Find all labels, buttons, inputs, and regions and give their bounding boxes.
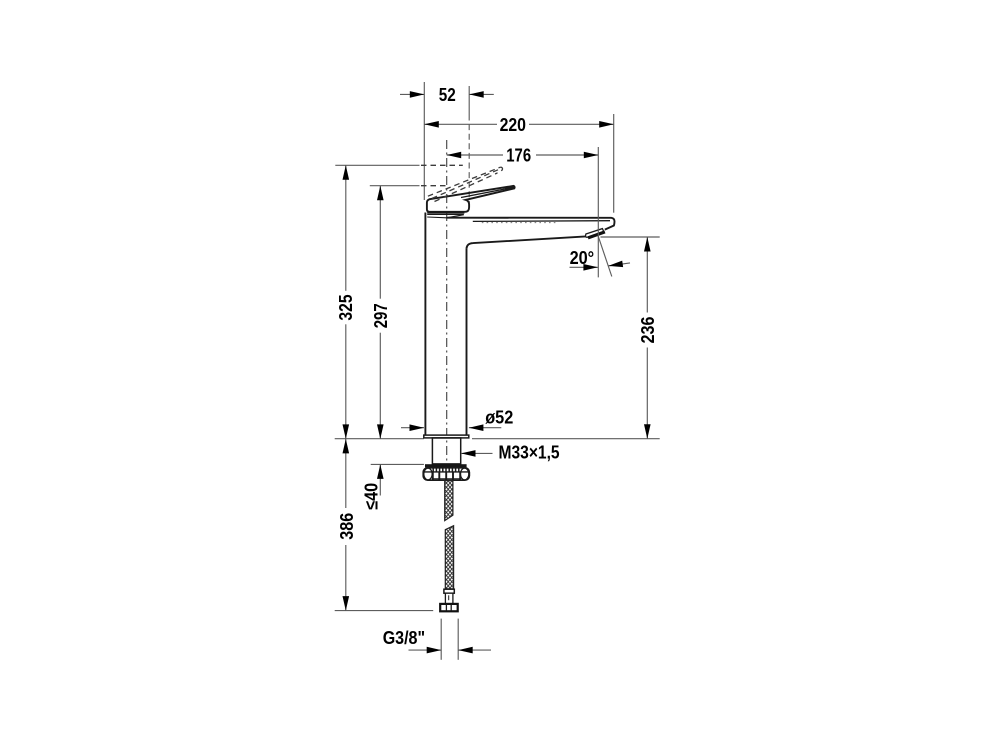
extension line spout tip (x=613.7) <box>613 114 615 213</box>
extension line right of base dashed continuation <box>468 115 470 210</box>
base flange <box>424 435 469 438</box>
water stream 20-degree slant line <box>597 234 612 277</box>
hidden dashes continuing y=185.7 <box>421 185 447 187</box>
mounting nut mid line <box>424 471 468 473</box>
extension line aerator axis (x=598.3) <box>597 147 599 277</box>
extension line top of raised handle (y=165.3) <box>335 164 419 166</box>
raised handle dashed tip arc <box>498 167 503 173</box>
dim o52 leaders <box>401 427 424 429</box>
svg-text:M33×1,5: M33×1,5 <box>499 443 560 463</box>
handle lever inner edge line <box>461 188 511 198</box>
svg-text:≤40: ≤40 <box>361 483 381 510</box>
body left edge <box>424 213 426 436</box>
svg-text:220: 220 <box>500 115 526 135</box>
spout second top line <box>473 220 610 223</box>
mounting nut face lines <box>433 472 460 479</box>
hose end tube tick <box>448 595 450 600</box>
dim le40 tail line <box>379 464 381 495</box>
washer dark band <box>425 464 467 467</box>
handle base thick line <box>427 212 464 214</box>
spout top dotted line <box>482 222 557 224</box>
faucet <box>423 167 614 611</box>
extension line top of handle (y=185.7) <box>370 185 420 187</box>
raised handle dashed line C <box>432 170 498 199</box>
mounting plane line left segment <box>335 438 424 440</box>
mounting nut right end ellipse <box>460 468 468 480</box>
construction lines <box>335 82 660 660</box>
dim 386 arrows <box>343 439 350 454</box>
dim 386 line <box>345 439 347 508</box>
raised handle dashed line B <box>435 173 498 202</box>
handle lever and grip outline <box>427 186 515 212</box>
dim M33 leader <box>461 452 493 454</box>
dim 176 arrows <box>447 152 462 159</box>
body right edge <box>466 248 468 435</box>
handle collar slant line <box>447 215 464 218</box>
dim 325 arrows <box>343 165 350 180</box>
hose end nut <box>440 604 458 611</box>
center line of faucet axis (x=446.7) <box>446 140 448 464</box>
hose bottom extension line (y=610.6) <box>335 610 434 612</box>
hose lower segment with braid <box>445 526 453 589</box>
svg-text:G3/8": G3/8" <box>383 628 425 648</box>
dim 236 arrows <box>644 237 651 252</box>
dim 297 arrows <box>377 186 384 201</box>
mounting nut inner bottom line <box>433 478 461 480</box>
dim G38 arrows <box>427 647 442 654</box>
raised handle dashed line A <box>428 167 500 196</box>
svg-text:386: 386 <box>337 513 357 540</box>
G3/8 extension line left (x=441.2) <box>440 619 442 660</box>
aerator <box>586 229 604 238</box>
dim M33 arrow <box>461 450 476 457</box>
svg-text:52: 52 <box>439 85 456 105</box>
washer top extension line (y=464.4) <box>371 463 424 465</box>
mounting nut body <box>423 468 469 480</box>
hidden dashes continuing y=165.3 over body <box>421 164 463 166</box>
G3/8 extension line right (x=458.2) <box>457 619 459 660</box>
handle collar top line <box>427 214 463 216</box>
dim le40 arrow <box>377 464 384 479</box>
hose end collar <box>444 589 454 593</box>
hose end tube <box>445 593 453 604</box>
svg-text:ø52: ø52 <box>485 408 513 428</box>
extension line left of base (x=424.3) <box>423 82 425 200</box>
dim 176 line <box>447 154 503 156</box>
dim 236 line <box>646 237 648 313</box>
handle lever tip solid wedge <box>505 186 515 190</box>
hose upper segment with braid <box>445 481 453 521</box>
dim 220 line <box>424 123 497 125</box>
dim G38 leaders <box>409 649 442 651</box>
dim o52 arrows <box>410 424 425 431</box>
aerator height extension line (y=237) <box>601 236 660 238</box>
svg-text:176: 176 <box>506 146 531 166</box>
dimensions <box>336 85 658 653</box>
handle collar bottom line <box>427 216 446 219</box>
mounting nut left end ellipse <box>424 468 432 480</box>
dim 52 leaders <box>400 93 424 95</box>
mounting plane line right segment <box>472 438 660 440</box>
dim 20deg leaders <box>570 266 598 268</box>
mounting nut knurl upper ticks <box>433 468 459 471</box>
aerator dark band <box>588 232 605 238</box>
spout top line with tip curve <box>447 218 615 230</box>
svg-text:325: 325 <box>336 294 356 320</box>
svg-text:297: 297 <box>371 303 391 328</box>
extension line right of base top solid (x=469.2) <box>468 86 470 115</box>
hose end nut face lines <box>445 605 447 611</box>
threaded shank <box>432 438 460 464</box>
spout underside <box>467 236 586 248</box>
dim 297 line <box>379 186 381 299</box>
dim 20deg arrows <box>583 264 598 271</box>
dim 52 arrows <box>410 91 425 98</box>
dim 325 line <box>345 165 347 290</box>
svg-text:236: 236 <box>638 317 658 344</box>
svg-text:20°: 20° <box>570 248 595 268</box>
dim 220 arrows <box>424 121 439 128</box>
